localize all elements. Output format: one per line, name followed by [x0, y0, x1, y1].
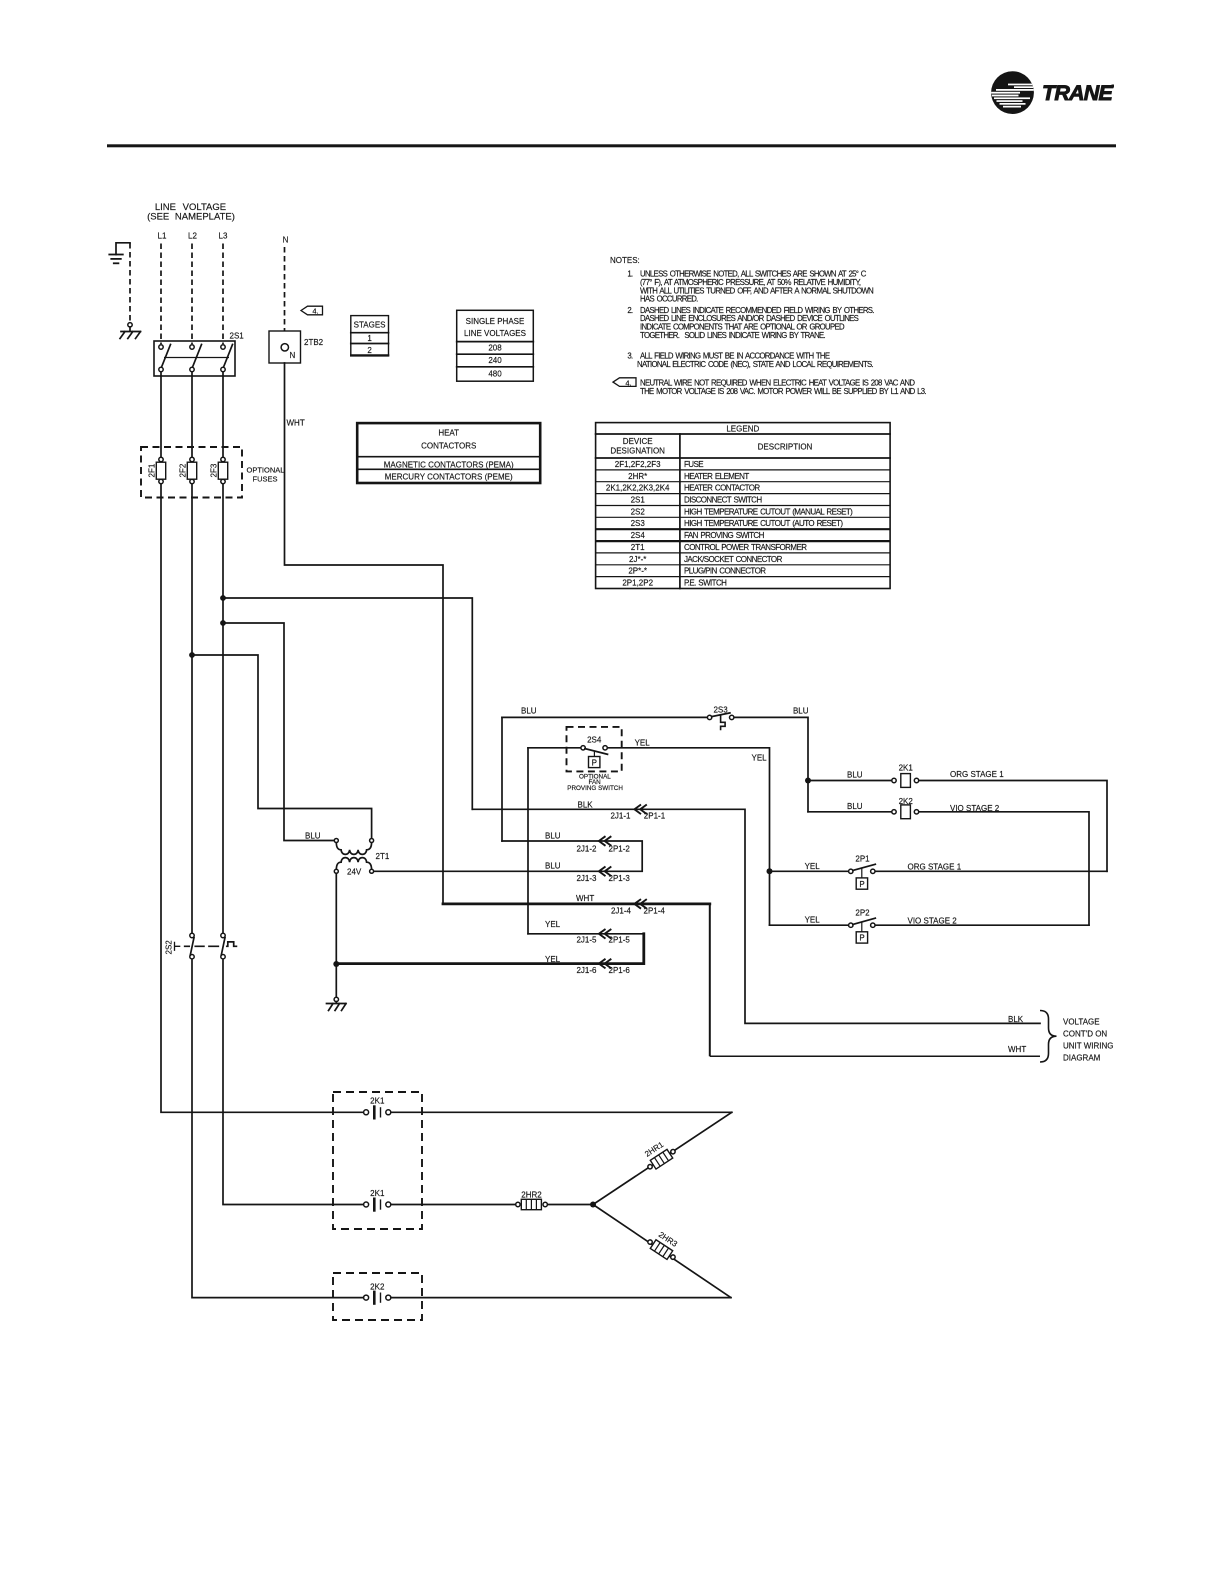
svg-text:YEL: YEL [805, 916, 821, 925]
svg-text:PLUG/PIN CONNECTOR: PLUG/PIN CONNECTOR [684, 567, 766, 576]
svg-text:2S1: 2S1 [631, 496, 646, 505]
svg-text:1: 1 [367, 334, 372, 343]
svg-text:4.: 4. [312, 307, 318, 316]
svg-text:DEVICE: DEVICE [623, 437, 653, 446]
svg-text:2TB2: 2TB2 [304, 338, 324, 347]
svg-text:SINGLE PHASE: SINGLE PHASE [466, 317, 525, 326]
svg-text:WHT: WHT [576, 894, 594, 903]
svg-text:BLU: BLU [545, 862, 561, 871]
svg-text:FUSE: FUSE [684, 460, 703, 469]
svg-text:HEATER ELEMENT: HEATER ELEMENT [684, 472, 749, 481]
svg-text:2.: 2. [627, 306, 633, 315]
svg-text:2P*-*: 2P*-* [628, 567, 647, 576]
svg-text:MERCURY CONTACTORS (PEME): MERCURY CONTACTORS (PEME) [385, 473, 513, 482]
svg-text:(SEE NAMEPLATE): (SEE NAMEPLATE) [147, 212, 235, 223]
svg-text:2HR2: 2HR2 [521, 1190, 542, 1199]
svg-text:2J1-1: 2J1-1 [610, 811, 631, 820]
svg-text:2P1-3: 2P1-3 [609, 874, 631, 883]
svg-text:2S2: 2S2 [165, 940, 174, 955]
svg-text:2T1: 2T1 [631, 543, 645, 552]
svg-text:JACK/SOCKET CONNECTOR: JACK/SOCKET CONNECTOR [684, 555, 783, 564]
svg-text:480: 480 [488, 370, 502, 379]
svg-text:2T1: 2T1 [376, 852, 390, 861]
svg-text:WHT: WHT [287, 419, 305, 428]
svg-text:YEL: YEL [635, 739, 651, 748]
svg-text:2K2: 2K2 [370, 1282, 385, 1291]
svg-text:2S4: 2S4 [631, 531, 646, 540]
svg-text:208: 208 [488, 344, 502, 353]
svg-text:BLU: BLU [305, 832, 321, 841]
svg-text:2F1: 2F1 [148, 463, 157, 477]
svg-text:HEATER CONTACTOR: HEATER CONTACTOR [684, 484, 760, 493]
svg-text:ORG STAGE 1: ORG STAGE 1 [908, 863, 962, 872]
svg-text:BLU: BLU [793, 707, 809, 716]
svg-text:3.: 3. [627, 352, 633, 361]
svg-text:YEL: YEL [545, 955, 561, 964]
svg-text:WHT: WHT [1008, 1045, 1026, 1054]
svg-text:2P1: 2P1 [855, 855, 870, 864]
svg-text:2K1: 2K1 [370, 1096, 385, 1105]
svg-text:N: N [290, 351, 296, 360]
svg-text:2F3: 2F3 [210, 463, 219, 477]
svg-text:BLK: BLK [1008, 1015, 1024, 1024]
svg-text:NEUTRAL WIRE NOT REQUIRED WHEN: NEUTRAL WIRE NOT REQUIRED WHEN ELECTRIC … [640, 378, 915, 387]
svg-text:2K1,2K2,2K3,2K4: 2K1,2K2,2K3,2K4 [606, 484, 670, 493]
svg-text:YEL: YEL [545, 920, 561, 929]
svg-text:4.: 4. [625, 378, 631, 387]
svg-text:P: P [592, 758, 597, 767]
svg-text:HIGH TEMPERATURE CUTOUT (MANUA: HIGH TEMPERATURE CUTOUT (MANUAL RESET) [684, 507, 853, 516]
svg-text:DESCRIPTION: DESCRIPTION [758, 443, 813, 452]
svg-text:2J1-5: 2J1-5 [576, 936, 597, 945]
svg-text:2P2: 2P2 [855, 908, 870, 917]
svg-text:2S1: 2S1 [230, 332, 245, 341]
svg-text:240: 240 [488, 356, 502, 365]
svg-text:FAN PROVING SWITCH: FAN PROVING SWITCH [684, 531, 765, 540]
svg-text:HAS OCCURRED.: HAS OCCURRED. [640, 295, 698, 304]
svg-text:HIGH TEMPERATURE CUTOUT (AUTO: HIGH TEMPERATURE CUTOUT (AUTO RESET) [684, 519, 843, 528]
svg-text:CONTROL POWER TRANSFORMER: CONTROL POWER TRANSFORMER [684, 543, 807, 552]
svg-text:MAGNETIC CONTACTORS (PEMA): MAGNETIC CONTACTORS (PEMA) [384, 460, 514, 469]
svg-text:LEGEND: LEGEND [726, 425, 759, 434]
svg-text:2P1-5: 2P1-5 [609, 936, 631, 945]
svg-text:BLU: BLU [847, 771, 863, 780]
svg-text:24V: 24V [347, 868, 362, 877]
svg-text:2K2: 2K2 [899, 797, 914, 806]
svg-text:2P1-6: 2P1-6 [609, 966, 631, 975]
svg-text:VIO STAGE 2: VIO STAGE 2 [950, 804, 1000, 813]
svg-text:THE MOTOR VOLTAGE IS 208 VAC.: THE MOTOR VOLTAGE IS 208 VAC. MOTOR POWE… [640, 387, 926, 396]
svg-text:2P1-4: 2P1-4 [644, 907, 666, 916]
svg-text:2S2: 2S2 [631, 507, 646, 516]
svg-text:1.: 1. [627, 270, 633, 279]
svg-text:YEL: YEL [752, 754, 768, 763]
svg-text:2J1-3: 2J1-3 [576, 874, 597, 883]
svg-text:2S3: 2S3 [713, 706, 728, 715]
svg-text:CONT'D ON: CONT'D ON [1063, 1030, 1107, 1039]
svg-text:N: N [283, 236, 289, 245]
svg-text:YEL: YEL [805, 862, 821, 871]
svg-text:ORG STAGE 1: ORG STAGE 1 [950, 770, 1004, 779]
svg-text:2K1: 2K1 [899, 764, 914, 773]
svg-text:2P1-1: 2P1-1 [644, 811, 666, 820]
svg-text:2HR*: 2HR* [628, 472, 647, 481]
svg-text:STAGES: STAGES [354, 321, 386, 330]
svg-text:DIAGRAM: DIAGRAM [1063, 1054, 1101, 1063]
svg-text:OPTIONAL: OPTIONAL [247, 466, 285, 475]
svg-text:ALL FIELD WIRING MUST BE IN AC: ALL FIELD WIRING MUST BE IN ACCORDANCE W… [640, 352, 830, 361]
svg-text:LINE VOLTAGES: LINE VOLTAGES [464, 329, 526, 338]
svg-text:2P1-2: 2P1-2 [609, 844, 631, 853]
svg-text:DESIGNATION: DESIGNATION [610, 447, 665, 456]
svg-text:L1: L1 [158, 232, 167, 241]
svg-text:VOLTAGE: VOLTAGE [1063, 1018, 1100, 1027]
svg-text:2S4: 2S4 [587, 736, 602, 745]
svg-text:CONTACTORS: CONTACTORS [421, 441, 476, 450]
svg-text:PROVING SWITCH: PROVING SWITCH [567, 785, 623, 792]
svg-text:TRANE: TRANE [1042, 81, 1114, 105]
svg-text:P: P [859, 880, 864, 889]
svg-text:L2: L2 [188, 232, 197, 241]
svg-text:VIO STAGE 2: VIO STAGE 2 [908, 916, 958, 925]
svg-text:P.E. SWITCH: P.E. SWITCH [684, 579, 727, 588]
svg-text:TOGETHER. SOLID LINES INDICAT: TOGETHER. SOLID LINES INDICATE WIRING BY… [640, 331, 826, 340]
svg-text:2S3: 2S3 [631, 519, 646, 528]
svg-text:BLU: BLU [545, 832, 561, 841]
svg-text:2J1-6: 2J1-6 [576, 966, 597, 975]
svg-text:2K1: 2K1 [370, 1189, 385, 1198]
svg-text:2J1-4: 2J1-4 [611, 907, 632, 916]
svg-text:2J1-2: 2J1-2 [576, 844, 597, 853]
svg-text:2: 2 [367, 346, 372, 355]
svg-text:FUSES: FUSES [253, 475, 278, 484]
svg-text:2P1,2P2: 2P1,2P2 [622, 579, 653, 588]
svg-text:NOTES:: NOTES: [610, 256, 640, 265]
svg-text:BLU: BLU [847, 802, 863, 811]
svg-text:2F2: 2F2 [179, 463, 188, 477]
svg-text:BLU: BLU [521, 707, 537, 716]
svg-text:HEAT: HEAT [438, 429, 459, 438]
svg-text:P: P [859, 934, 864, 943]
svg-text:NATIONAL ELECTRIC CODE (NEC),: NATIONAL ELECTRIC CODE (NEC), STATE AND … [637, 360, 874, 369]
svg-text:2F1,2F2,2F3: 2F1,2F2,2F3 [615, 460, 661, 469]
svg-text:BLK: BLK [578, 801, 594, 810]
svg-text:DISCONNECT SWITCH: DISCONNECT SWITCH [684, 496, 762, 505]
svg-text:UNIT WIRING: UNIT WIRING [1063, 1042, 1114, 1051]
svg-text:L3: L3 [219, 232, 228, 241]
svg-text:2J*-*: 2J*-* [629, 555, 646, 564]
